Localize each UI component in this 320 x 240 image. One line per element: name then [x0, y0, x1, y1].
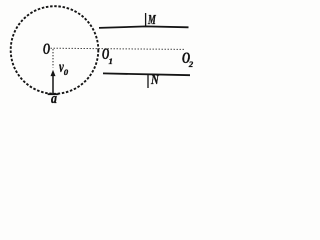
label O2 (node at right) [182, 50, 190, 69]
label O1 subscript 1 [109, 56, 113, 66]
plate M (top) [99, 26, 189, 28]
plate N (bottom) [103, 73, 190, 75]
dashed circle (electron cloud / field region) [11, 6, 99, 94]
label v0 subscript 0 [64, 67, 68, 77]
label O2 subscript 2 [189, 60, 193, 70]
dotted vertical line below O [52, 49, 54, 68]
label v0 (initial velocity) [59, 59, 64, 77]
velocity arrow head [51, 70, 56, 76]
label a (entry point) [51, 91, 57, 107]
label N (bottom plate) [151, 73, 159, 89]
label O (circle center) [43, 41, 50, 59]
lead tick on plate M [145, 13, 147, 27]
label O1 (node on circle) [102, 46, 109, 64]
velocity arrow v0 shaft [52, 75, 54, 94]
label M (top plate) [148, 12, 156, 27]
arrow base bar at point a [48, 93, 59, 95]
lead tick on plate N [147, 74, 149, 88]
dotted axis line O to O2 [51, 48, 185, 49]
